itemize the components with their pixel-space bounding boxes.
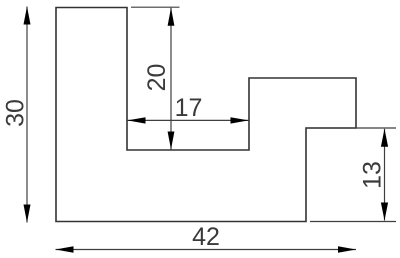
dimension 42 line — [56, 249, 357, 251]
svg-text:13: 13 — [358, 161, 386, 189]
extension line right upper (for dim 13 top) — [306, 127, 396, 129]
svg-text:20: 20 — [143, 64, 171, 92]
svg-text:17: 17 — [175, 94, 203, 122]
extension line top (for dim 20) — [131, 6, 180, 8]
dim 30 arrow up — [24, 7, 31, 25]
dimension 20 line — [170, 8, 172, 150]
dim 42 arrow right — [338, 246, 356, 252]
dim 30 arrow down — [24, 205, 31, 223]
part outline (stepped profile) — [56, 8, 356, 222]
dimension 30 line — [26, 7, 28, 223]
dim 13 arrow up — [381, 129, 388, 147]
dim 42 arrow left — [56, 246, 74, 252]
dimension 13 line — [384, 129, 386, 221]
dim 20 arrow up — [168, 8, 175, 26]
svg-text:42: 42 — [192, 223, 220, 251]
dim 13 arrow down — [381, 203, 388, 221]
dim 17 arrow left — [128, 117, 146, 123]
dim 17 arrow right — [231, 117, 249, 123]
dim 20 arrow down — [168, 132, 175, 150]
svg-text:30: 30 — [1, 99, 29, 127]
extension line right lower (for dim 13 bottom) — [310, 221, 396, 223]
dimension 17 line — [128, 119, 249, 121]
